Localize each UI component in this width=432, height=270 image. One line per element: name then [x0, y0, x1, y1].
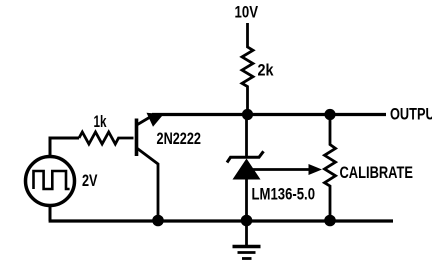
svg-text:OUTPUT: OUTPUT	[390, 105, 432, 124]
svg-text:2k: 2k	[258, 61, 274, 80]
svg-text:2N2222: 2N2222	[157, 129, 202, 148]
svg-text:10V: 10V	[235, 3, 259, 22]
svg-text:1k: 1k	[94, 112, 107, 131]
svg-text:2V: 2V	[82, 171, 98, 190]
svg-text:LM136-5.0: LM136-5.0	[252, 185, 316, 204]
svg-text:CALIBRATE: CALIBRATE	[340, 163, 414, 182]
